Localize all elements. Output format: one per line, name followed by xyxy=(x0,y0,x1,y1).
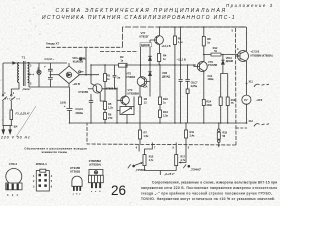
label -20V xyxy=(73,82,80,86)
resistor R14 xyxy=(202,100,205,106)
resistor R2 xyxy=(119,63,128,67)
svg-text:R13: R13 xyxy=(163,110,168,114)
wire column x105 xyxy=(104,65,106,123)
scan speckles xyxy=(1,4,131,204)
zener VD10 xyxy=(222,55,224,74)
svg-text:ИСТОЧНИКА ПИТАНИЯ СТАБИЛИЗИРОВ: ИСТОЧНИКА ПИТАНИЯ СТАБИЛИЗИРОВАННОГО ИПС… xyxy=(42,15,235,21)
wire: mains left pole xyxy=(2,63,4,126)
svg-text:26: 26 xyxy=(111,183,126,198)
transformer T1 secondary xyxy=(28,63,29,83)
connector drop wire x86 xyxy=(85,48,87,75)
label VT2 xyxy=(128,88,139,95)
wire: mains right pole xyxy=(11,83,19,126)
label VD1-VD4 xyxy=(72,56,85,64)
label 0,1A xyxy=(143,86,148,89)
footnote paragraph xyxy=(141,181,277,202)
svg-text:„0–15 V”: „0–15 V” xyxy=(164,172,175,176)
resistor R1 xyxy=(104,74,107,82)
svg-text:гнезда „–” при крайнем по часо: гнезда „–” при крайнем по часовой стрелк… xyxy=(141,192,272,196)
resistor R8 xyxy=(203,27,205,55)
resistor R4 xyxy=(158,52,160,65)
resistor R11 below bus xyxy=(185,123,187,144)
wire box right stub xyxy=(133,97,135,107)
svg-text:VT7: VT7 xyxy=(141,31,146,35)
svg-text:„ТОЧНО”: „ТОЧНО” xyxy=(191,168,202,172)
svg-text:элементов схемы: элементов схемы xyxy=(42,150,68,154)
svg-text:–20 В: –20 В xyxy=(73,82,80,86)
svg-text:(КТ805А): (КТ805А) xyxy=(89,163,101,167)
svg-text:R9: R9 xyxy=(178,36,182,40)
enclosure dashed border left step xyxy=(46,46,123,48)
arrowhead into VT5 base xyxy=(236,55,239,57)
label 3,8 V xyxy=(60,101,66,104)
svg-text:КТ315Б: КТ315Б xyxy=(208,63,217,67)
svg-text:+12,1 В: +12,1 В xyxy=(162,44,171,48)
node label Гнездо ХТ xyxy=(46,42,59,46)
svg-text:КТ805 БМ: КТ805 БМ xyxy=(106,87,118,91)
enclosure dashed border right xyxy=(235,28,238,145)
resistor R10 xyxy=(159,65,161,123)
enclosure dashed border top xyxy=(123,27,247,47)
wire box bottom xyxy=(126,115,128,123)
svg-text:2000м: 2000м xyxy=(75,111,83,115)
label VT3 xyxy=(126,72,135,80)
wire lamp column xyxy=(38,63,40,87)
capacitor C1 xyxy=(48,63,53,77)
svg-text:Д814Д: Д814Д xyxy=(162,74,170,78)
voltmeter PV xyxy=(242,95,251,104)
scan hair line artifact xyxy=(16,106,36,137)
transistor VT1 xyxy=(93,84,102,93)
resistor R(emitter VT3) xyxy=(139,97,142,105)
arrow on top rail xyxy=(12,62,16,64)
node X12 xyxy=(249,120,254,123)
clip hook X12 xyxy=(254,124,269,127)
svg-text:2РМ14-4: 2РМ14-4 xyxy=(36,162,47,166)
node dot x139.5 bus xyxy=(140,64,142,66)
thermistor box R xyxy=(120,107,134,115)
transformer secondary taps xyxy=(28,63,32,88)
pinout connector xyxy=(36,162,47,166)
label Ш4 xyxy=(14,126,18,129)
switch S1 link xyxy=(5,98,21,100)
wire bridge AC bottom xyxy=(68,84,70,87)
node dots main xyxy=(90,64,195,75)
label F1 xyxy=(16,112,31,116)
pot R17 wiper xyxy=(179,144,186,163)
svg-text:+: + xyxy=(44,64,46,68)
border pin labels xyxy=(136,147,190,150)
plug arrow left xyxy=(2,126,5,134)
wire top rail xyxy=(160,26,247,28)
label 0-15V xyxy=(164,172,175,176)
svg-text:Х12: Х12 xyxy=(249,120,254,123)
svg-text:R5: R5 xyxy=(108,102,112,106)
transistor VT7 xyxy=(155,36,164,45)
dashed stub near PV xyxy=(236,127,247,129)
svg-text:3,8 В: 3,8 В xyxy=(60,101,66,104)
bridge rectifier VD1-VD4 xyxy=(59,66,80,84)
page number 26 xyxy=(111,183,126,198)
svg-text:R4: R4 xyxy=(163,53,167,57)
label C1 C2 xyxy=(44,57,55,69)
capacitor C5 xyxy=(89,101,93,103)
resistor R12 xyxy=(211,53,221,56)
node X11 xyxy=(246,83,248,85)
resistor R6 xyxy=(104,113,107,120)
socket pin marks xyxy=(80,58,82,60)
wire VD7 box to VT3 collector xyxy=(140,47,142,65)
switch S1 pole pins xyxy=(2,95,4,97)
mains crossbar xyxy=(2,125,12,127)
label +12,1 V xyxy=(162,44,171,48)
svg-text:КТ805БМ (КТ805А): КТ805БМ (КТ805А) xyxy=(251,55,273,58)
bottom bus xyxy=(70,122,247,124)
svg-text:КТ361Б: КТ361Б xyxy=(70,170,80,174)
svg-text:КД202Ж: КД202Ж xyxy=(141,44,151,47)
diode VD7 label box xyxy=(140,43,152,47)
resistor R13 xyxy=(159,110,162,118)
zener VD6 xyxy=(148,72,151,76)
svg-text:VT6: VT6 xyxy=(208,60,213,64)
paper noise xyxy=(0,0,280,206)
transistor VT2 xyxy=(121,96,130,105)
svg-text:„ГРУБО”: „ГРУБО” xyxy=(136,168,146,172)
label VT7 xyxy=(140,31,150,38)
transformer T1 primary xyxy=(18,63,19,83)
svg-text:СХЕМА ЭЛЕКТРИЧЕСКАЯ ПРИНЦИПИАЛ: СХЕМА ЭЛЕКТРИЧЕСКАЯ ПРИНЦИПИАЛЬНАЯ xyxy=(56,8,226,14)
label -12,1V xyxy=(177,58,186,62)
label C10 xyxy=(208,75,214,81)
svg-text:R7: R7 xyxy=(144,131,148,135)
label VD6 xyxy=(162,71,170,78)
svg-text:ТОЧНО. Напряжения могут отлича: ТОЧНО. Напряжения могут отличаться на ±1… xyxy=(141,197,275,201)
svg-text:PV: PV xyxy=(244,99,248,102)
zener column x150 xyxy=(149,47,151,97)
plug arrow right xyxy=(9,126,12,134)
svg-text:–12,1 В: –12,1 В xyxy=(177,58,186,62)
resistor R5 xyxy=(104,102,107,110)
svg-text:к: к xyxy=(95,191,96,193)
svg-text:R6: R6 xyxy=(108,113,112,117)
capacitor C3 C4 xyxy=(66,87,72,123)
title line 2 xyxy=(42,15,235,21)
svg-text:КТ315Б: КТ315Б xyxy=(79,90,89,94)
svg-text:VD6: VD6 xyxy=(162,71,168,75)
svg-text:КТ361Б: КТ361Б xyxy=(126,75,135,79)
svg-text:СП3-4: СП3-4 xyxy=(9,162,18,166)
switch S1 blades xyxy=(2,97,15,101)
svg-text:270: 270 xyxy=(108,116,113,120)
wire minus column x91 lower xyxy=(90,75,92,123)
svg-text:R17: R17 xyxy=(180,156,185,159)
resistor R9 xyxy=(174,27,176,123)
svg-text:R2: R2 xyxy=(120,55,124,59)
wire mid bus xyxy=(91,64,196,66)
pinout KT805 xyxy=(89,159,102,167)
dashed line B xyxy=(100,51,138,53)
svg-text:к: к xyxy=(79,194,80,196)
svg-text:100м: 100м xyxy=(208,78,214,81)
svg-text:Х11: Х11 xyxy=(249,81,254,84)
pin 5 label xyxy=(232,29,234,33)
svg-text:R15: R15 xyxy=(149,156,154,159)
svg-text:С3,С4: С3,С4 xyxy=(75,107,83,111)
svg-text:220 V 50 Hz: 220 V 50 Hz xyxy=(0,136,30,140)
wire plus riser xyxy=(90,65,92,75)
title line 1 xyxy=(56,8,226,14)
pinout pot SP3-4 xyxy=(9,162,18,166)
svg-text:–15 В: –15 В xyxy=(256,99,263,102)
transformer labels xyxy=(4,56,39,95)
clip hook X11 xyxy=(254,84,269,87)
wire pot bottom link xyxy=(145,171,177,176)
columns x220.7 x227.7 xyxy=(221,74,228,124)
svg-text:R10: R10 xyxy=(163,97,168,101)
caption pinouts xyxy=(24,146,87,154)
resistor on x187 xyxy=(186,89,189,94)
resistor R7 below bus xyxy=(139,123,141,144)
wire VT2 base column xyxy=(117,89,120,123)
pot R16 wiper xyxy=(133,165,135,167)
wire: top rail AC xyxy=(3,62,67,64)
pot R16 coarse xyxy=(139,143,152,155)
transistor VT3 xyxy=(137,77,147,87)
wire base feed y54.5 xyxy=(204,54,238,56)
svg-text:VT2: VT2 xyxy=(128,88,133,92)
label Сеть xyxy=(22,87,31,91)
svg-text:Сопротивления, указанные в схе: Сопротивления, указанные в схеме, измере… xyxy=(152,181,277,185)
label KT315 with leader xyxy=(79,90,89,94)
wire column x180 xyxy=(179,27,183,123)
svg-text:Гнездо ХТ: Гнездо ХТ xyxy=(46,42,59,46)
svg-text:„Сеть”: „Сеть” xyxy=(22,87,31,91)
svg-text:R11: R11 xyxy=(190,130,195,134)
capacitor C5a xyxy=(113,65,117,89)
pinout KT315/KT361 xyxy=(70,166,80,174)
svg-text:К1А: К1А xyxy=(143,86,148,89)
svg-text:F1 „0,25 А”: F1 „0,25 А” xyxy=(16,112,31,116)
capacitor C9 column x187 xyxy=(185,65,189,123)
header: appendix note xyxy=(226,3,273,8)
svg-text:R8: R8 xyxy=(207,37,211,41)
wire bridge AC top xyxy=(68,63,70,66)
svg-text:1м: 1м xyxy=(117,77,120,80)
svg-text:КТ815Г: КТ815Г xyxy=(140,35,150,39)
svg-text:напряжении сети 220 В. Постоян: напряжении сети 220 В. Постоянные напряж… xyxy=(141,186,277,190)
label KT805 right xyxy=(106,87,118,91)
transistor VT5 xyxy=(238,51,249,62)
lamp HL1 xyxy=(37,70,41,74)
svg-text:С1,С2 –: С1,С2 – xyxy=(45,57,55,61)
label 220V 50Hz xyxy=(0,136,30,140)
svg-text:VT3: VT3 xyxy=(126,72,131,76)
shunt R18 with jacks xyxy=(218,123,220,145)
transformer T1 core xyxy=(24,61,25,86)
svg-text:200к: 200к xyxy=(207,104,213,107)
wire bottom AC rail xyxy=(29,86,69,88)
svg-text:0,05м: 0,05м xyxy=(191,85,198,88)
fuse F1 xyxy=(10,110,13,120)
wire caps to bridge xyxy=(50,74,58,76)
svg-text:Д814В: Д814В xyxy=(226,60,234,63)
wire bridge plus output xyxy=(79,74,99,76)
capacitor C2 xyxy=(48,78,53,88)
svg-text:КТ805БМ: КТ805БМ xyxy=(128,92,139,96)
zener VD5 xyxy=(148,56,151,60)
pot R17 fine xyxy=(175,143,177,155)
svg-text:+17,5 В: +17,5 В xyxy=(251,50,260,53)
enclosure dashed border bottom xyxy=(87,123,236,145)
svg-text:Т1: Т1 xyxy=(22,56,26,60)
transistor VT6 xyxy=(197,62,207,72)
